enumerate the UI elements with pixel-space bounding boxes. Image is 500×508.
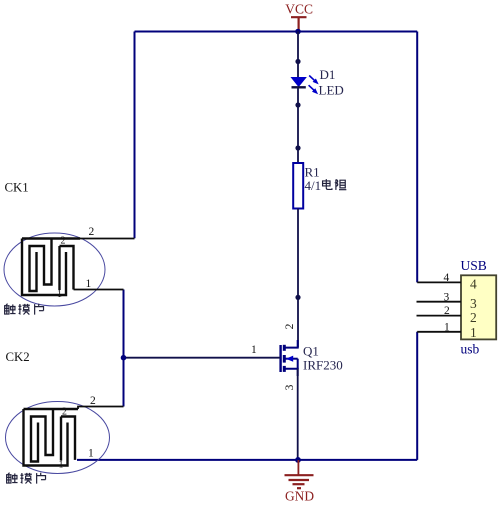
node above R1 bbox=[295, 145, 300, 150]
resistor R1 bbox=[293, 163, 321, 209]
svg-text:IRF230: IRF230 bbox=[303, 358, 343, 373]
svg-text:LED: LED bbox=[319, 83, 344, 98]
svg-text:4: 4 bbox=[444, 272, 450, 284]
label 触摸片 (CK2) bbox=[7, 473, 46, 484]
wire left vertical (top rail to CK1 pin 2) bbox=[134, 32, 136, 239]
value label 电阻 for R1 bbox=[323, 179, 347, 190]
touch pad CK2 bbox=[6, 395, 124, 474]
svg-text:1: 1 bbox=[86, 278, 92, 290]
wire R1 to Q1 drain bbox=[297, 209, 299, 348]
label 触摸片 (CK1) bbox=[5, 304, 44, 315]
touch pad CK1 bbox=[4, 226, 135, 306]
connector USB bbox=[417, 258, 497, 357]
svg-text:3: 3 bbox=[284, 384, 296, 390]
svg-text:2: 2 bbox=[62, 407, 67, 418]
node between R1 and Q1 bbox=[295, 295, 300, 300]
wire USB pin 3 stub bbox=[417, 301, 462, 303]
wire main vertical VCC to LED bbox=[297, 32, 299, 79]
wire CK1 pin1 vertical down to gate node and to CK2 pin2 level bbox=[123, 290, 125, 407]
node below LED bbox=[295, 102, 300, 107]
wire USB pin 1 bbox=[417, 331, 461, 333]
wire bottom rail bbox=[77, 459, 417, 461]
wire top rail bbox=[135, 31, 418, 33]
svg-text:Q1: Q1 bbox=[303, 344, 319, 359]
svg-text:1: 1 bbox=[470, 325, 477, 340]
svg-text:4: 4 bbox=[470, 277, 477, 292]
svg-text:2: 2 bbox=[90, 395, 96, 407]
svg-text:1: 1 bbox=[59, 460, 64, 471]
node gate junction bbox=[121, 355, 127, 361]
svg-text:3: 3 bbox=[470, 296, 477, 311]
node VCC junction bbox=[295, 29, 301, 35]
wire USB pin 4 bbox=[417, 281, 461, 283]
svg-text:3: 3 bbox=[444, 291, 450, 303]
transistor Q1 bbox=[281, 323, 343, 390]
svg-text:2: 2 bbox=[470, 310, 477, 325]
svg-text:CK1: CK1 bbox=[5, 180, 29, 194]
ground GND bbox=[285, 460, 315, 504]
node bottom junction bbox=[295, 457, 301, 463]
wire gate from junction to Q1 bbox=[124, 357, 281, 359]
svg-text:CK2: CK2 bbox=[6, 350, 30, 364]
svg-text:GND: GND bbox=[285, 489, 314, 504]
svg-text:1: 1 bbox=[251, 344, 257, 356]
wire Q1 source to bottom rail bbox=[297, 369, 299, 460]
power symbol VCC bbox=[285, 1, 313, 31]
wire right vertical USB pin1 to bottom rail bbox=[416, 332, 418, 460]
svg-text:USB: USB bbox=[461, 258, 487, 273]
wire CK1 pin 1 bbox=[74, 289, 124, 291]
svg-text:2: 2 bbox=[89, 226, 95, 238]
svg-text:D1: D1 bbox=[320, 67, 336, 82]
svg-text:4/1: 4/1 bbox=[305, 178, 322, 193]
svg-text:2: 2 bbox=[444, 305, 450, 317]
diode D1 (LED) bbox=[292, 67, 344, 98]
svg-text:1: 1 bbox=[57, 289, 62, 300]
wire CK2 pin 2 bbox=[78, 407, 124, 410]
wire right vertical (top rail to USB pin 4) bbox=[416, 32, 418, 283]
svg-text:1: 1 bbox=[444, 321, 450, 333]
wire USB pin 2 stub bbox=[417, 315, 462, 317]
svg-text:VCC: VCC bbox=[285, 1, 313, 16]
svg-text:1: 1 bbox=[88, 448, 94, 460]
wire LED to R1 bbox=[297, 87, 299, 163]
node above LED bbox=[295, 59, 300, 64]
wire CK1 pin 2 bbox=[80, 238, 135, 240]
svg-text:2: 2 bbox=[61, 236, 66, 247]
svg-text:usb: usb bbox=[461, 342, 480, 357]
svg-text:2: 2 bbox=[284, 323, 296, 329]
